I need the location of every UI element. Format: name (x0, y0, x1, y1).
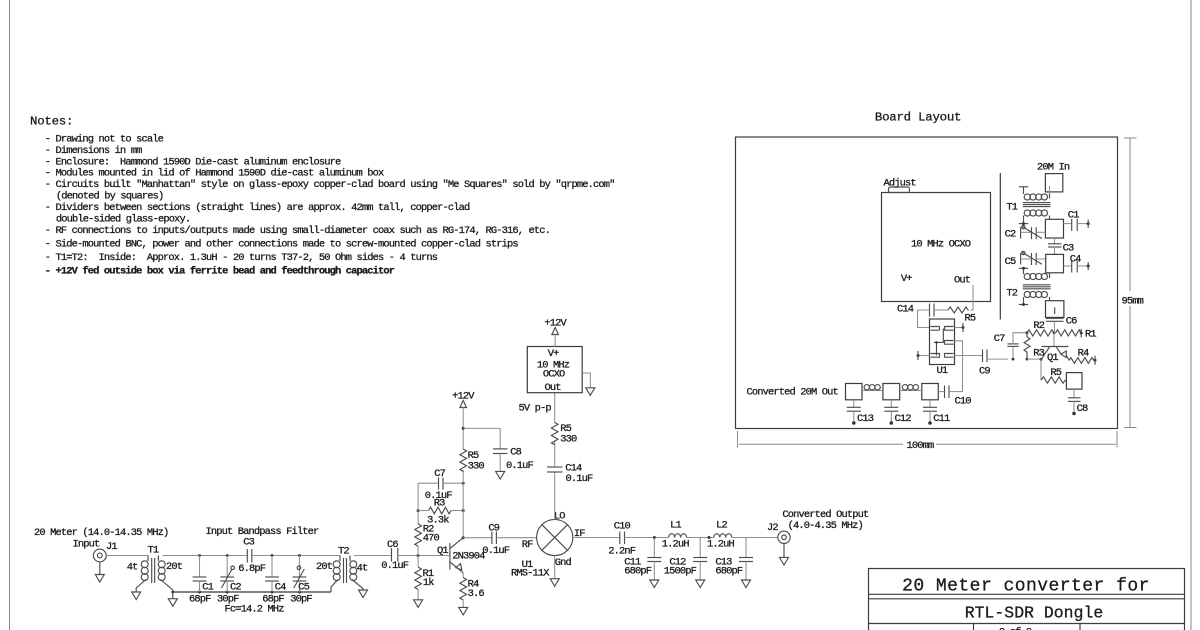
svg-text:C14: C14 (897, 304, 914, 316)
resistor R5 (layout, emitter) (1041, 359, 1066, 383)
pad for R5/C8 (layout) (1066, 373, 1082, 390)
OCXO case ground (582, 373, 595, 395)
OCXO out wire (972, 285, 974, 310)
svg-text:20t: 20t (166, 561, 183, 573)
resistor R3 (417, 498, 465, 527)
svg-text:Input Bandpass Filter: Input Bandpass Filter (206, 526, 320, 538)
svg-text:2N3904: 2N3904 (452, 551, 485, 563)
transformer T2 (layout) (1019, 268, 1051, 304)
wire C9 to Q1 base (1027, 358, 1041, 360)
capacitor C7 (layout) (994, 331, 1029, 360)
resistor R5 schematic left (460, 449, 484, 472)
svg-text:- Side-mounted BNC, power and: - Side-mounted BNC, power and other conn… (45, 238, 519, 250)
resistor R4 (layout) (1069, 347, 1096, 365)
capacitor C14 (layout) (897, 304, 948, 328)
resistor R5 LO (551, 393, 577, 446)
svg-text:J1: J1 (106, 541, 117, 553)
capacitor C1 (189, 554, 214, 605)
+12V left (452, 391, 500, 449)
svg-text:- RF connections to inputs/out: - RF connections to inputs/outputs made … (45, 225, 550, 237)
svg-text:double-sided glass-epoxy.: double-sided glass-epoxy. (56, 213, 190, 225)
svg-text:C12: C12 (895, 413, 912, 425)
svg-text:0.1uF: 0.1uF (381, 560, 409, 572)
trimmer capacitor C2 (layout) (1005, 226, 1046, 241)
svg-text:10 MHz OCXO: 10 MHz OCXO (911, 239, 971, 251)
svg-text:3.6: 3.6 (468, 588, 485, 600)
svg-text:R5: R5 (965, 313, 976, 325)
resistor R1 (layout) (1056, 329, 1097, 341)
inductor L1 (662, 520, 690, 551)
svg-text:3.3k: 3.3k (427, 515, 449, 527)
svg-text:20t: 20t (316, 561, 333, 573)
svg-text:0.1uF: 0.1uF (506, 460, 534, 472)
svg-text:IF: IF (574, 528, 585, 540)
svg-text:2 of 2: 2 of 2 (999, 627, 1032, 630)
svg-text:C2: C2 (1005, 229, 1016, 241)
notes list (45, 134, 615, 278)
capacitor C1 (layout) (1064, 210, 1090, 232)
svg-text:Q1: Q1 (1047, 352, 1058, 364)
svg-text:- Circuits built "Manhattan" s: - Circuits built "Manhattan" style on gl… (45, 179, 615, 191)
svg-text:95mm: 95mm (1122, 296, 1144, 308)
svg-text:T1: T1 (148, 545, 159, 557)
wire bottom rail (173, 591, 331, 593)
svg-text:C9: C9 (979, 366, 990, 378)
svg-text:U1: U1 (937, 365, 948, 377)
ground J1 (95, 562, 104, 582)
mixer U1 pins (layout) (917, 323, 983, 392)
svg-text:100mm: 100mm (907, 440, 935, 452)
capacitor C5 trimmer (290, 554, 312, 605)
capacitor C6 (layout) (1046, 307, 1077, 333)
capacitor C3 series (238, 537, 266, 576)
svg-text:Board Layout: Board Layout (875, 110, 961, 124)
wire (687, 537, 714, 539)
svg-text:20M In: 20M In (1037, 162, 1070, 174)
OCXO module outline (882, 193, 991, 302)
ground T1 left (132, 592, 141, 600)
svg-text:C4: C4 (275, 582, 286, 594)
trimmer capacitor C5 (layout) (1005, 251, 1046, 268)
node Q1 base (417, 554, 420, 557)
capacitor C2 trimmer (217, 554, 241, 605)
transistor Q1 (420, 536, 486, 573)
svg-text:T2: T2 (1006, 288, 1017, 300)
svg-text:4t: 4t (127, 562, 138, 574)
pad 1 (layout) (1045, 219, 1063, 238)
board outline (736, 137, 1118, 429)
capacitor C12 (664, 538, 708, 588)
svg-text:C1: C1 (1068, 210, 1079, 222)
resistor R5 (layout, OCXO out) (948, 307, 976, 325)
dimension 100mm (738, 431, 1118, 448)
inductor coil 1 (layout) (862, 385, 883, 391)
svg-text:470: 470 (423, 533, 440, 545)
output pads (846, 384, 863, 400)
capacitor C11 (624, 536, 661, 588)
svg-text:1k: 1k (423, 577, 434, 589)
wire J1 to T1 (106, 555, 148, 557)
svg-text:5V p-p: 5V p-p (519, 403, 552, 415)
svg-text:C6: C6 (1066, 316, 1077, 328)
svg-text:- Enclosure: Hammond 1590D Di: - Enclosure: Hammond 1590D Die-cast alum… (45, 156, 341, 168)
svg-text:C13: C13 (857, 413, 874, 425)
svg-text:V+: V+ (901, 273, 912, 285)
capacitor C12 (layout) (884, 400, 911, 425)
svg-text:C10: C10 (614, 521, 631, 533)
connector J1 (93, 549, 106, 562)
resistor R4 (459, 573, 485, 615)
svg-text:+12V: +12V (544, 318, 567, 330)
svg-text:J2: J2 (767, 522, 778, 534)
svg-text:0.1uF: 0.1uF (425, 490, 453, 502)
page border right (1190, 0, 1192, 630)
svg-text:30pF: 30pF (290, 593, 312, 605)
wire collector rail (462, 470, 464, 538)
mixer U1 (layout) (930, 319, 955, 377)
pad 3 with capacitor C6 (layout) (1046, 301, 1064, 318)
svg-text:C5: C5 (298, 582, 309, 594)
svg-text:OCXO: OCXO (543, 369, 565, 381)
svg-text:0.1uF: 0.1uF (566, 473, 594, 485)
inductor L2 (707, 520, 735, 551)
wire top rail (163, 555, 248, 557)
svg-text:1.2uH: 1.2uH (707, 538, 735, 550)
svg-text:20 Meter converter for: 20 Meter converter for (902, 577, 1150, 597)
ground T2 right (359, 590, 368, 598)
OCXO box schematic (527, 347, 582, 395)
dimension 95mm (1124, 138, 1137, 428)
capacitor C13 (715, 538, 753, 588)
capacitor C10 schematic (608, 521, 668, 558)
svg-text:- Drawing not to scale: - Drawing not to scale (45, 134, 164, 146)
svg-text:4t: 4t (357, 562, 368, 574)
capacitor C13 (layout) (847, 400, 874, 425)
svg-text:Notes:: Notes: (30, 115, 73, 129)
resistor R3 (layout) (1024, 333, 1045, 361)
svg-text:Out: Out (545, 382, 562, 394)
capacitor C11 (layout) (923, 400, 950, 425)
mixer U1 (511, 510, 585, 579)
capacitor C3 (layout) (1048, 238, 1074, 255)
capacitor C4 (layout) (1064, 254, 1090, 273)
svg-text:- Dimensions in mm: - Dimensions in mm (45, 145, 142, 157)
capacitor C9 (463, 523, 536, 558)
mixer ground (550, 556, 559, 587)
ground bottom rail (168, 592, 177, 606)
pad 2 (layout) (1046, 254, 1064, 272)
svg-text:C7: C7 (434, 468, 445, 480)
svg-text:L2: L2 (716, 520, 727, 532)
adjust pot (889, 187, 910, 193)
resistor R2 (layout) (1027, 320, 1055, 336)
svg-text:L1: L1 (670, 520, 681, 532)
svg-text:C3: C3 (243, 537, 254, 549)
connector J2 (778, 531, 790, 565)
svg-text:V+: V+ (548, 348, 559, 360)
svg-text:R5: R5 (1050, 367, 1061, 379)
svg-text:Fc=14.2 MHz: Fc=14.2 MHz (225, 604, 285, 616)
svg-text:C1: C1 (202, 581, 213, 593)
svg-text:- +12V fed outside box via fer: - +12V fed outside box via ferrite bead … (45, 266, 395, 278)
svg-text:330: 330 (560, 434, 577, 446)
svg-text:C7: C7 (994, 333, 1005, 345)
svg-text:R4: R4 (1078, 347, 1089, 359)
svg-text:C8: C8 (510, 447, 521, 459)
svg-text:1.2uH: 1.2uH (662, 538, 690, 550)
page border left (9, 0, 11, 630)
svg-text:C8: C8 (1077, 403, 1088, 415)
section divider (999, 173, 1001, 320)
svg-text:Converted 20M Out: Converted 20M Out (747, 387, 839, 399)
svg-text:RTL-SDR Dongle: RTL-SDR Dongle (965, 603, 1104, 622)
+12V OCXO (544, 318, 567, 347)
svg-text:6.8pF: 6.8pF (238, 563, 266, 575)
svg-text:C9: C9 (488, 523, 499, 535)
svg-text:68pF: 68pF (189, 593, 211, 605)
svg-text:R2: R2 (1033, 320, 1044, 332)
capacitor C4 (262, 554, 286, 605)
svg-text:RF: RF (522, 539, 533, 551)
svg-text:C5: C5 (1005, 256, 1016, 268)
capacitor C8 (layout) (1068, 389, 1088, 415)
LO line (554, 473, 556, 520)
resistor R1 (414, 556, 435, 608)
svg-text:330: 330 (468, 460, 485, 472)
capacitor C9 (layout) (979, 350, 1008, 378)
IF line (573, 537, 620, 539)
capacitor C6 (381, 539, 418, 572)
resistor R2 (415, 511, 440, 556)
svg-text:T1: T1 (1006, 202, 1017, 214)
transformer T1 (layout) (1019, 187, 1051, 224)
svg-text:Out: Out (954, 275, 971, 287)
svg-text:- Modules mounted in lid of Ha: - Modules mounted in lid of Hammond 1590… (45, 168, 384, 180)
capacitor C10 (layout) (938, 386, 971, 408)
capacitor C14 schematic (547, 441, 593, 486)
svg-text:RMS-11X: RMS-11X (511, 568, 550, 580)
svg-text:Adjust: Adjust (884, 178, 917, 190)
svg-text:680pF: 680pF (715, 566, 743, 578)
wire to J2 (732, 537, 778, 539)
svg-text:Q1: Q1 (437, 545, 448, 557)
transistor Q1 (layout) (1040, 333, 1070, 364)
svg-text:C10: C10 (955, 396, 972, 408)
svg-text:20 Meter (14.0-14.35 MHz): 20 Meter (14.0-14.35 MHz) (34, 527, 168, 539)
svg-text:- T1=T2: Inside: Approx. 1.3: - T1=T2: Inside: Approx. 1.3uH - 20 turn… (45, 252, 438, 264)
capacitor C8 (493, 428, 534, 479)
svg-text:0.1uF: 0.1uF (482, 545, 510, 557)
20M In pad (1045, 174, 1062, 192)
svg-text:Input: Input (73, 539, 101, 551)
svg-text:(denoted by squares): (denoted by squares) (56, 191, 164, 203)
svg-text:C4: C4 (1070, 254, 1081, 266)
svg-text:1500pF: 1500pF (664, 566, 697, 578)
svg-text:LO: LO (554, 510, 565, 522)
svg-text:- Dividers between sections (s: - Dividers between sections (straight li… (45, 202, 470, 214)
svg-text:Gnd: Gnd (555, 557, 572, 569)
svg-text:C11: C11 (933, 413, 950, 425)
svg-text:(4.0-4.35 MHz): (4.0-4.35 MHz) (788, 520, 863, 532)
wire T2 to C6 (354, 555, 392, 557)
svg-text:R1: R1 (1085, 329, 1096, 341)
capacitor C7 (418, 468, 465, 510)
svg-text:C2: C2 (230, 581, 241, 593)
svg-text:C6: C6 (387, 539, 398, 551)
svg-text:680pF: 680pF (624, 566, 652, 578)
inductor coil 2 (layout) (900, 385, 922, 391)
